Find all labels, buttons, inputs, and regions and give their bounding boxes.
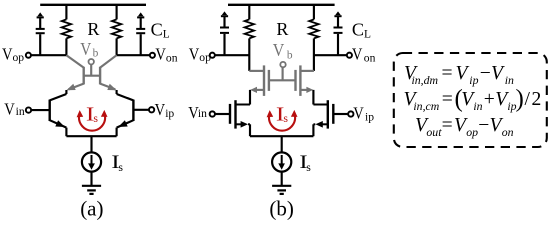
- resistor R left (a): [62, 19, 71, 38]
- equation box dashed frame: [394, 53, 547, 147]
- CIRCUIT B: [210, 5, 352, 71]
- terminal Vb (b): [280, 62, 285, 67]
- svg-text:in,dm: in,dm: [412, 73, 439, 87]
- label Vop (b): [189, 44, 211, 64]
- label Is red (b): [276, 103, 289, 125]
- label Vip (a): [155, 100, 175, 120]
- svg-text:V: V: [2, 44, 13, 63]
- wire VDD rail (a): [40, 4, 146, 6]
- svg-text:=: =: [442, 63, 453, 84]
- svg-text:V: V: [456, 63, 470, 84]
- svg-text:=: =: [442, 89, 453, 110]
- svg-text:on: on: [502, 125, 514, 139]
- svg-text:): ): [516, 86, 524, 113]
- svg-text:V: V: [80, 39, 91, 59]
- label Vop (a): [2, 44, 24, 64]
- current source Is (b): [272, 152, 291, 171]
- wire common gate Vb (b): [269, 79, 296, 81]
- wire rail to resistor R2: [116, 5, 118, 20]
- svg-text:2: 2: [532, 89, 542, 110]
- transistor M4 cascode right (b): [296, 65, 314, 96]
- label CL (b): [352, 19, 371, 40]
- terminal Vin (b): [210, 111, 215, 116]
- label Von (a): [155, 44, 177, 64]
- svg-text:s: s: [118, 160, 123, 174]
- equation line 2: Vin,cm = (Vin + Vip)/2: [404, 86, 542, 113]
- wire Q2 emitter to tail bus: [116, 128, 118, 137]
- terminal Vip (a): [149, 107, 154, 112]
- red signal current arc (a): [77, 110, 108, 131]
- label Vin (b): [188, 103, 207, 122]
- svg-text:C: C: [352, 19, 364, 39]
- svg-text:V: V: [353, 103, 364, 122]
- supply symbol above CL left (a): [37, 12, 44, 28]
- transistor M1 input left (b): [230, 100, 250, 128]
- red signal current arc (b): [267, 110, 298, 131]
- wire resistor R2 to Von node: [116, 38, 118, 55]
- svg-text:(b): (b): [269, 197, 294, 221]
- svg-text:op: op: [199, 51, 211, 64]
- svg-text:V: V: [352, 44, 363, 63]
- gray cascode pair (a): [66, 55, 116, 90]
- wire Vin to M1 gate: [215, 113, 230, 115]
- label Vb gray (a): [80, 39, 98, 60]
- transistor Q4 cascode right (a): [100, 55, 117, 90]
- svg-text:C: C: [151, 19, 163, 39]
- wire M2 source to tail bus: [312, 124, 314, 136]
- svg-text:−: −: [478, 115, 489, 136]
- wire rail to resistor R3: [248, 5, 250, 20]
- label Is black (b): [299, 152, 311, 174]
- transistor Q2 input right (a): [117, 94, 134, 128]
- terminal Vip (b): [348, 111, 353, 116]
- svg-text:op: op: [466, 125, 478, 139]
- wire common base Vb (a): [84, 75, 100, 77]
- capacitor CL left (b): [220, 28, 229, 56]
- wire cascode emitter to Q2 collector right (a): [116, 90, 118, 94]
- terminal Vop (a): [26, 53, 31, 58]
- svg-text:in: in: [473, 99, 482, 113]
- wire current source to ground (a): [90, 172, 92, 185]
- wire Vip to Q2 base: [133, 109, 148, 111]
- terminal Von (a): [150, 53, 155, 58]
- wire cascode source to M1 drain left (b): [249, 90, 251, 105]
- wire Von node (b): [314, 54, 347, 56]
- svg-text:L: L: [364, 28, 371, 40]
- wire Vip to M2 gate: [333, 113, 348, 115]
- wire tail to current source (b): [281, 136, 283, 152]
- svg-text:in: in: [505, 73, 514, 87]
- resistor R right (a): [112, 19, 121, 38]
- gray cascode pair (b): [249, 62, 314, 96]
- wire rail to resistor R4: [313, 5, 315, 20]
- wire resistor R1 to Vop node: [65, 38, 67, 55]
- wire M1 source to tail bus: [249, 124, 251, 136]
- equation line 1: Vin,dm = Vip - Vin: [404, 63, 514, 87]
- wire Vop node (a): [31, 54, 66, 56]
- transistor Q3 cascode left (a): [66, 55, 83, 90]
- label Vb gray (b): [273, 40, 293, 61]
- svg-text:V: V: [155, 100, 166, 119]
- svg-text:s: s: [306, 160, 311, 174]
- svg-text:on: on: [364, 51, 376, 64]
- svg-text:+: +: [484, 89, 495, 110]
- svg-text:out: out: [426, 125, 442, 139]
- svg-text:V: V: [189, 44, 200, 63]
- svg-text:ip: ip: [165, 107, 174, 120]
- label Vin (a): [4, 99, 25, 118]
- svg-text:in: in: [198, 107, 207, 120]
- svg-text:b: b: [93, 48, 99, 60]
- supply symbol above CL left (b): [221, 11, 228, 26]
- svg-text:(a): (a): [80, 197, 103, 221]
- wire Von node (a): [117, 54, 150, 56]
- svg-text:−: −: [480, 63, 491, 84]
- ground (a): [82, 186, 101, 194]
- current source Is (a): [82, 152, 101, 171]
- svg-text:R: R: [87, 19, 99, 39]
- svg-text:ip: ip: [365, 110, 374, 123]
- label Vip (b): [353, 103, 374, 123]
- transistor M2 input right (b): [313, 100, 333, 128]
- wire current source to ground (b): [281, 172, 283, 185]
- label CL (a): [151, 19, 170, 40]
- wire cascode emitter to Q1 collector left (a): [65, 90, 67, 94]
- wire tail to current source (a): [90, 136, 92, 152]
- wire resistor R3 down to cascode drain: [248, 38, 250, 71]
- wire Q1 emitter to tail bus: [65, 128, 67, 137]
- resistor R left (b): [245, 19, 254, 38]
- wire resistor R4 down to cascode drain: [313, 38, 315, 71]
- wire cascode source to M2 drain right (b): [312, 90, 314, 105]
- capacitor CL right (a): [136, 29, 145, 55]
- terminal Vb (a): [89, 59, 94, 64]
- label Is black (a): [111, 152, 123, 174]
- svg-text:ip: ip: [469, 73, 478, 87]
- label Is red (a): [86, 103, 99, 125]
- svg-text:V: V: [491, 63, 505, 84]
- resistor R right (b): [309, 19, 318, 38]
- terminal Von (b): [347, 53, 352, 58]
- svg-text:V: V: [4, 99, 15, 118]
- wire rail to resistor R1: [65, 5, 67, 20]
- transistor Q1 input left (a): [50, 94, 67, 128]
- svg-text:on: on: [166, 51, 178, 64]
- svg-text:/: /: [525, 89, 531, 110]
- equation line 3: Vout = Vop - Von: [415, 115, 514, 139]
- wire VDD rail (b): [228, 4, 335, 6]
- supply symbol above CL right (a): [137, 12, 144, 28]
- svg-text:in,cm: in,cm: [413, 99, 439, 113]
- wire tail bus (a): [66, 135, 116, 137]
- svg-text:in: in: [16, 105, 25, 118]
- svg-text:R: R: [276, 19, 288, 39]
- CIRCUIT A: [26, 5, 155, 58]
- transistor M3 cascode left (b): [249, 65, 269, 96]
- capacitor CL left (a): [36, 29, 45, 55]
- wire Vop node (b): [215, 54, 249, 56]
- terminal Vin (a): [26, 107, 31, 112]
- svg-text:b: b: [287, 49, 293, 61]
- wire tail bus (b): [250, 135, 313, 137]
- svg-text:op: op: [13, 51, 25, 64]
- svg-text:V: V: [273, 40, 285, 60]
- svg-text:=: =: [442, 115, 453, 136]
- svg-text:V: V: [155, 44, 166, 63]
- wire Vin to Q1 base: [32, 109, 50, 111]
- ground (b): [272, 186, 291, 194]
- svg-text:s: s: [93, 111, 98, 125]
- label Von (b): [352, 44, 376, 64]
- terminal Vop (b): [210, 53, 215, 58]
- svg-text:s: s: [283, 111, 288, 125]
- supply symbol above CL right (b): [334, 11, 341, 26]
- capacitor CL right (b): [334, 28, 343, 56]
- svg-text:L: L: [163, 28, 170, 40]
